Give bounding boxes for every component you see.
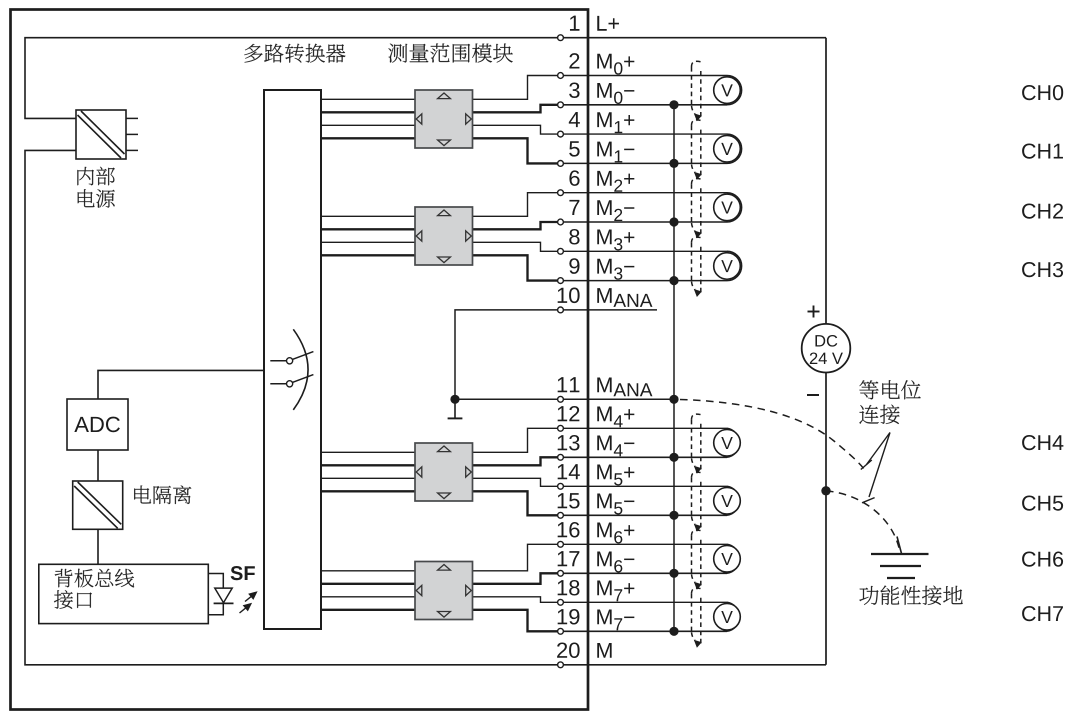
wire mux to range module A line 2 — [321, 111, 415, 113]
wire range module A output 3 to pin 4 — [473, 125, 728, 134]
wire mux to range module A line 1 — [321, 98, 415, 100]
junction bus pin 11 — [669, 395, 678, 404]
node CH1 — [1022, 143, 1063, 158]
label equipotential bonding 等电位连接 — [859, 380, 920, 399]
pin 14 terminal — [558, 464, 635, 489]
shielded twisted pair cable CH3 — [692, 237, 702, 294]
range module B box — [415, 207, 473, 265]
node CH3 — [1022, 262, 1063, 277]
wire DC source minus rail down to M line — [825, 373, 827, 665]
wire mux to range module A line 3 — [321, 124, 415, 126]
range module C orientation triangles — [416, 446, 471, 499]
mux switch contact circles — [287, 358, 293, 387]
pin 15 terminal — [558, 493, 635, 518]
wire L+ rail down right side to DC source plus — [825, 38, 827, 324]
wire mux to range module D line 4 — [321, 609, 415, 611]
internal power supply output stubs — [126, 118, 138, 150]
wire mux to range module C line 2 — [321, 464, 415, 466]
wire range module A output 4 to pin 5 — [473, 138, 561, 163]
wire mux to range module D line 2 — [321, 583, 415, 585]
wire ADC to isolation — [97, 450, 99, 481]
mux selector arc — [293, 329, 308, 410]
pin 10 terminal — [558, 288, 653, 313]
wire range module A output 1 to pin 2 — [473, 76, 728, 100]
pin 5 terminal — [558, 141, 635, 166]
DC source minus sign — [807, 394, 819, 396]
junction bus pin 19 — [669, 627, 678, 636]
junction M_ANA internal reference — [450, 395, 459, 404]
voltage source V CH3 — [714, 251, 742, 280]
wire range module C output 1 to pin 12 — [473, 428, 728, 452]
SF LED diode D1 — [215, 588, 232, 603]
pin 2 terminal — [558, 53, 635, 78]
pin 19 terminal — [558, 609, 635, 634]
range module C box — [415, 443, 473, 501]
pin 11 terminal — [558, 377, 653, 402]
pin 16 terminal — [558, 522, 635, 547]
pin 1 terminal — [558, 16, 619, 41]
pin 7 terminal — [558, 200, 635, 225]
node CH2 — [1022, 203, 1063, 218]
label isolation 电隔离 — [134, 485, 191, 504]
shielded twisted pair cable CH7 — [692, 588, 702, 645]
wire ADC to mux — [98, 370, 264, 399]
junction bus pin 5 — [669, 159, 678, 168]
junction bus pin 13 — [669, 453, 678, 462]
pin 6 terminal — [558, 170, 635, 195]
pin 3 terminal — [558, 82, 635, 107]
voltage source V CH1 — [714, 134, 742, 163]
wire mux to range module C line 4 — [321, 490, 415, 492]
galvanic isolation box — [73, 481, 123, 529]
junction bus pin 15 — [669, 511, 678, 520]
voltage source V CH4 — [714, 428, 741, 457]
voltage source V CH7 — [714, 602, 741, 631]
junction bus pin 3 — [669, 100, 678, 109]
DC 24V source — [802, 324, 851, 373]
node CH6 — [1022, 551, 1063, 566]
wire pin 10 M_ANA stub and down to reference node — [455, 310, 657, 399]
range module B orientation triangles — [416, 210, 471, 263]
pin 13 terminal — [558, 435, 635, 460]
wire mux to range module C line 3 — [321, 477, 415, 479]
wire mux to range module B line 3 — [321, 241, 415, 243]
backplane bus interface box — [39, 564, 209, 623]
wire range module B output 4 to pin 9 — [473, 255, 561, 280]
ADC box U3 — [67, 399, 128, 450]
voltage source V CH5 — [714, 486, 741, 515]
wire range module D output 2 to pin 17 — [473, 573, 561, 584]
shielded twisted pair cable CH4 — [692, 414, 702, 471]
DC source plus sign — [808, 306, 820, 318]
wire M from internal power supply down left side and along bottom to pin 20 and DC source minus — [25, 150, 826, 664]
label measuring range module 测量范围模块 — [388, 44, 512, 63]
label ADC — [74, 417, 120, 433]
internal power supply converter box — [76, 110, 126, 159]
voltage source V CH0 — [714, 76, 742, 105]
wire range module B output 1 to pin 6 — [473, 193, 728, 217]
label functional earth 功能性接地 — [859, 586, 962, 605]
wire mux to range module B line 1 — [321, 215, 415, 217]
voltage source V CH2 — [714, 193, 742, 222]
wire range module A output 2 to pin 3 — [473, 105, 561, 113]
label pointer to bonding conductors — [861, 433, 890, 503]
equipotential bonding conductor from rail to earth — [826, 491, 900, 550]
node CH5 — [1022, 495, 1063, 510]
node CH4 — [1022, 435, 1063, 450]
label SF — [231, 566, 255, 580]
shielded twisted pair cable CH1 — [692, 120, 702, 177]
wire mux to range module C line 1 — [321, 451, 415, 453]
junction bus pin 17 — [669, 569, 678, 578]
multiplexer box — [264, 90, 321, 629]
label backplane bus interface 背板总线接口 — [55, 569, 134, 588]
SF LED wire loop — [208, 574, 223, 615]
range module D orientation triangles — [416, 565, 471, 618]
voltage source V CH6 — [714, 544, 741, 573]
wire mux to range module A line 4 — [321, 137, 415, 139]
SF LED emission arrows — [240, 592, 257, 613]
equipotential bonding conductor from M_ANA — [680, 400, 866, 472]
junction bus pin 7 — [669, 217, 678, 226]
range module D box — [415, 562, 473, 620]
wire range module C output 4 to pin 15 — [473, 491, 561, 515]
pin 20 terminal — [557, 642, 612, 667]
pin 8 terminal — [558, 229, 635, 254]
node CH0 — [1022, 85, 1063, 100]
wire L+ from pin 1 across top and down left to internal power supply — [25, 38, 826, 119]
wire common measurement bus — [673, 105, 675, 632]
pin 9 terminal — [558, 258, 635, 283]
wire mux to range module D line 1 — [321, 570, 415, 572]
wire isolation to backplane interface — [97, 529, 99, 564]
wire range module B output 2 to pin 7 — [473, 222, 561, 229]
pin 12 terminal — [558, 406, 635, 431]
mux switch levers — [292, 352, 313, 383]
wire range module C output 3 to pin 14 — [473, 478, 728, 486]
pin 4 terminal — [558, 112, 635, 137]
wire range module D output 3 to pin 18 — [473, 597, 728, 603]
wire mux to range module B line 4 — [321, 254, 415, 256]
node CH7 — [1022, 606, 1063, 621]
functional earth ground symbol — [871, 537, 929, 579]
range module A box — [415, 90, 473, 148]
shielded twisted pair cable CH2 — [692, 178, 702, 235]
wire range module D output 1 to pin 16 — [473, 544, 728, 571]
wire pin 11 M_ANA to common bus — [454, 398, 674, 400]
junction equipotential on DC minus rail — [821, 486, 830, 495]
wire range module D output 4 to pin 19 — [473, 610, 561, 632]
wire mux to range module B line 2 — [321, 228, 415, 230]
internal analog reference ground symbol — [448, 399, 463, 418]
pin 17 terminal — [558, 551, 635, 576]
pin 18 terminal — [558, 580, 635, 605]
wire range module C output 2 to pin 13 — [473, 457, 561, 465]
junction bus pin 9 — [669, 276, 678, 285]
shielded twisted pair cable CH0 — [692, 61, 702, 118]
wire mux to range module D line 3 — [321, 596, 415, 598]
module enclosure box — [11, 10, 589, 710]
label internal power supply 内部电源 — [77, 167, 114, 186]
shielded twisted pair cable CH5 — [692, 472, 702, 529]
mux switch contact stubs — [270, 361, 286, 384]
range module A orientation triangles — [416, 93, 471, 146]
label multiplexer 多路转换器 — [244, 44, 345, 63]
shielded twisted pair cable CH6 — [692, 530, 702, 587]
wire range module B output 3 to pin 8 — [473, 242, 728, 251]
